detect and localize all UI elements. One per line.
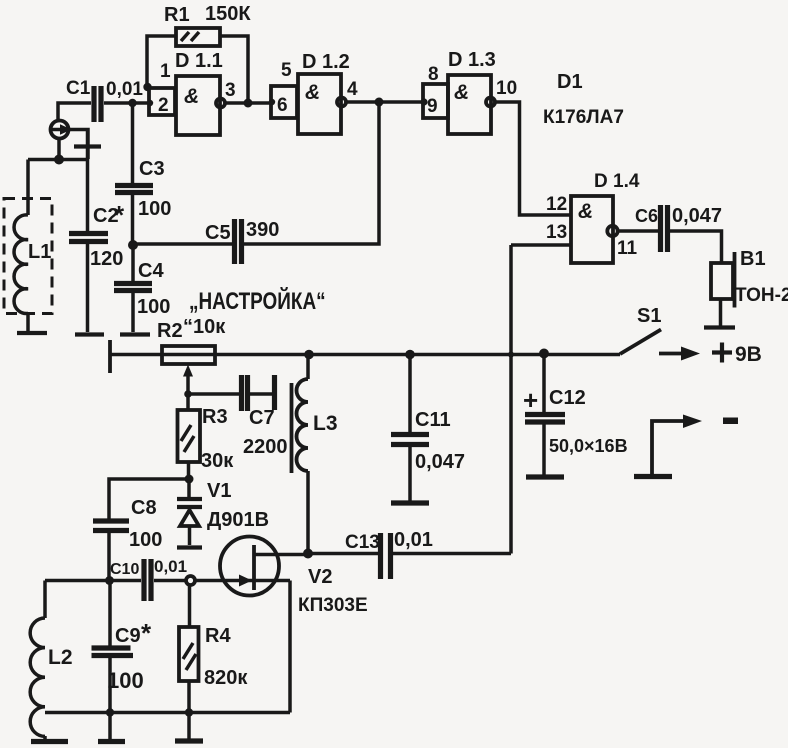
svg-text:3: 3 xyxy=(225,80,236,101)
svg-text:390: 390 xyxy=(246,219,279,241)
wire gate node to V2 xyxy=(195,579,253,583)
svg-text:C13: C13 xyxy=(345,532,380,553)
svg-text:100: 100 xyxy=(129,529,162,551)
wire R1 right branch xyxy=(220,36,248,103)
wire supply rail xyxy=(110,353,620,357)
svg-text:30к: 30к xyxy=(201,450,234,472)
terminal minus output xyxy=(634,415,738,477)
inductor L1 xyxy=(14,160,51,332)
svg-text:C12: C12 xyxy=(549,387,586,409)
ground R4 xyxy=(175,738,203,743)
svg-text:11: 11 xyxy=(617,238,638,259)
capacitor C2 xyxy=(69,131,125,332)
ground C2 xyxy=(75,332,104,336)
svg-text:R3: R3 xyxy=(202,406,228,428)
diode V1 Д901В varicap xyxy=(177,479,269,548)
ground C9 xyxy=(98,739,125,744)
ground C4 xyxy=(120,332,150,336)
node wiper junction xyxy=(184,390,192,398)
resistor R4 xyxy=(179,585,248,739)
svg-text:C3: C3 xyxy=(139,158,165,180)
wire junction down to C5 xyxy=(243,102,379,244)
svg-text:R4: R4 xyxy=(205,625,231,647)
svg-text:L2: L2 xyxy=(48,646,73,669)
capacitor C6 xyxy=(635,205,722,252)
ground C11 xyxy=(391,500,429,505)
node C8 C9 junction xyxy=(105,576,114,585)
op-amp gate D1.3 xyxy=(423,49,517,134)
wire D1.4 out to C6 xyxy=(618,229,658,233)
node R3 V1 junction xyxy=(185,475,194,484)
node pin2 input junction xyxy=(128,99,136,107)
svg-text:„НАСТРОЙКА“: „НАСТРОЙКА“ xyxy=(189,287,326,315)
connector X1 plug circle xyxy=(51,121,72,139)
svg-text:1: 1 xyxy=(160,61,171,82)
op-amp gate D1.2 xyxy=(271,51,358,134)
op-amp gate D1.4 xyxy=(546,171,640,263)
wire gate left corner to L2 xyxy=(43,581,47,619)
svg-text:0,047: 0,047 xyxy=(415,451,465,473)
svg-text:&: & xyxy=(454,81,469,104)
wire pin13 down to C13 xyxy=(509,245,513,554)
svg-text:V1: V1 xyxy=(207,480,231,502)
wire C10 to gate node xyxy=(154,579,186,583)
svg-text:2: 2 xyxy=(158,95,169,116)
capacitor C5 xyxy=(205,219,279,264)
svg-text:*: * xyxy=(141,618,152,648)
wire D1.3 out down to D1.4 pin12 xyxy=(495,102,571,215)
wire C13 to pin13 line xyxy=(393,552,511,556)
capacitor C4 xyxy=(114,245,170,332)
terminal rail left end xyxy=(108,340,112,373)
L1 dashed screen box xyxy=(4,199,52,314)
svg-text:&: & xyxy=(305,81,320,104)
connector X1 socket contact xyxy=(69,130,102,160)
headphone B1 ТОН-2 xyxy=(711,248,788,326)
svg-text:D 1.4: D 1.4 xyxy=(594,171,640,192)
wire input to C1 xyxy=(58,103,91,120)
ground C12 xyxy=(526,474,564,479)
wire D1.4 pin13 xyxy=(511,243,571,247)
svg-text:&: & xyxy=(578,200,593,223)
capacitor C9 xyxy=(92,581,153,739)
node V1 R4 gate ring xyxy=(186,576,195,585)
svg-text:0,01: 0,01 xyxy=(154,557,187,576)
wire drain node to C13 xyxy=(308,552,378,556)
label D1 К176ЛА7 xyxy=(543,71,624,128)
svg-text:КП303Е: КП303Е xyxy=(298,595,368,616)
capacitor C11 xyxy=(391,355,465,502)
ground L2 xyxy=(31,739,68,744)
svg-text:D 1.1: D 1.1 xyxy=(175,50,223,72)
svg-text:5: 5 xyxy=(281,60,292,81)
wire gate line left xyxy=(45,579,141,583)
wire source down xyxy=(288,581,292,713)
svg-text:8: 8 xyxy=(428,64,439,85)
ground B1 xyxy=(704,325,735,329)
svg-text:D 1.2: D 1.2 xyxy=(302,51,350,73)
svg-text:120: 120 xyxy=(90,248,123,270)
node L3 drain junction xyxy=(303,549,313,559)
node rail L3 junction xyxy=(304,350,314,360)
svg-text:L3: L3 xyxy=(313,412,338,435)
svg-text:C6: C6 xyxy=(635,206,658,226)
label R2 10к xyxy=(157,316,226,342)
node D1.3 pin9 xyxy=(420,98,427,105)
svg-text:2200: 2200 xyxy=(243,436,288,458)
svg-text:13: 13 xyxy=(546,222,567,243)
svg-text:D 1.3: D 1.3 xyxy=(448,49,496,71)
svg-text:100: 100 xyxy=(138,198,171,220)
capacitor C3 xyxy=(115,103,171,246)
svg-text:9В: 9В xyxy=(735,343,762,366)
resistor R2 potentiometer xyxy=(162,346,215,364)
svg-text:0,047: 0,047 xyxy=(672,205,722,227)
svg-text:C7: C7 xyxy=(249,407,275,429)
svg-text:0,01: 0,01 xyxy=(394,529,433,551)
svg-text:D1: D1 xyxy=(557,71,583,93)
wire C5 left to C3C4 node xyxy=(133,242,232,246)
svg-text:9: 9 xyxy=(427,96,438,117)
node C3 C4 C5 junction xyxy=(128,240,138,250)
capacitor C12 electrolytic xyxy=(523,354,628,475)
capacitor C13 xyxy=(345,529,433,579)
svg-text:C4: C4 xyxy=(138,260,164,282)
svg-text:Д901В: Д901В xyxy=(207,509,269,531)
arrow +9В terminal xyxy=(659,343,762,367)
node bottom R4 xyxy=(185,708,193,716)
svg-text:С10: С10 xyxy=(110,561,139,578)
wire R3 node to C8 xyxy=(109,479,189,519)
node jack junction xyxy=(54,155,64,165)
svg-text:S1: S1 xyxy=(637,305,661,327)
node bottom C9 xyxy=(106,708,114,716)
svg-text:C5: C5 xyxy=(205,222,231,244)
ground L1 xyxy=(17,331,47,335)
capacitor C1 xyxy=(66,78,143,122)
capacitor C10 xyxy=(110,557,187,601)
svg-text:L1: L1 xyxy=(28,241,51,263)
wire R1 left branch xyxy=(147,36,176,86)
inductor L3 xyxy=(292,355,338,554)
capacitor C8 xyxy=(93,497,162,581)
svg-text:12: 12 xyxy=(546,194,567,215)
svg-text:V2: V2 xyxy=(308,566,332,588)
node pin1 xyxy=(143,83,151,91)
resistor R3 xyxy=(178,394,235,479)
inductor L2 xyxy=(30,618,72,740)
svg-text:&: & xyxy=(184,85,199,108)
svg-text:820к: 820к xyxy=(204,667,248,689)
wire C6 to B1 xyxy=(670,231,722,263)
svg-text:10: 10 xyxy=(496,78,517,99)
svg-text:0,01: 0,01 xyxy=(106,79,143,100)
node D1.1 output junction xyxy=(244,99,253,108)
svg-text:C9: C9 xyxy=(115,625,141,647)
wire jack to L1/C2 xyxy=(28,139,88,162)
svg-text:C1: C1 xyxy=(66,78,91,99)
node D1.1 pin2 xyxy=(147,100,153,106)
svg-text:B1: B1 xyxy=(740,248,766,270)
capacitor C7 xyxy=(191,375,288,458)
svg-text:100: 100 xyxy=(107,668,144,693)
svg-text:4: 4 xyxy=(347,79,358,100)
svg-text:6: 6 xyxy=(277,95,288,116)
wire D1.2 out to D1.3 xyxy=(346,100,423,104)
wire bottom rail xyxy=(45,711,290,715)
node D1.2 pin6 xyxy=(269,99,275,105)
node rail C12 junction xyxy=(539,349,549,359)
svg-text:“10к: “10к xyxy=(183,316,226,338)
op-amp gate D1.1 xyxy=(149,50,236,135)
wire D1.1 out to D1.2 xyxy=(225,101,271,105)
svg-text:100: 100 xyxy=(137,296,170,318)
svg-text:150К: 150К xyxy=(205,3,251,25)
svg-text:R1: R1 xyxy=(164,4,190,26)
svg-text:+: + xyxy=(523,385,538,415)
svg-text:ТОН-2: ТОН-2 xyxy=(735,285,788,306)
transistor V2 КП303Е xyxy=(220,537,368,617)
resistor R1 xyxy=(164,3,251,46)
node feedback junction xyxy=(375,98,384,107)
svg-text:C11: C11 xyxy=(415,409,451,431)
svg-text:R2: R2 xyxy=(157,320,183,342)
switch S1 xyxy=(620,305,661,354)
svg-text:*: * xyxy=(114,200,125,230)
svg-text:C8: C8 xyxy=(131,497,157,519)
svg-text:50,0×16В: 50,0×16В xyxy=(549,436,628,456)
R2 wiper arrow xyxy=(183,365,193,396)
node rail pin13 crossing xyxy=(508,352,514,358)
wire C1 to pin2 xyxy=(104,101,150,105)
svg-text:К176ЛА7: К176ЛА7 xyxy=(543,107,624,128)
node rail C11 junction xyxy=(405,350,415,360)
